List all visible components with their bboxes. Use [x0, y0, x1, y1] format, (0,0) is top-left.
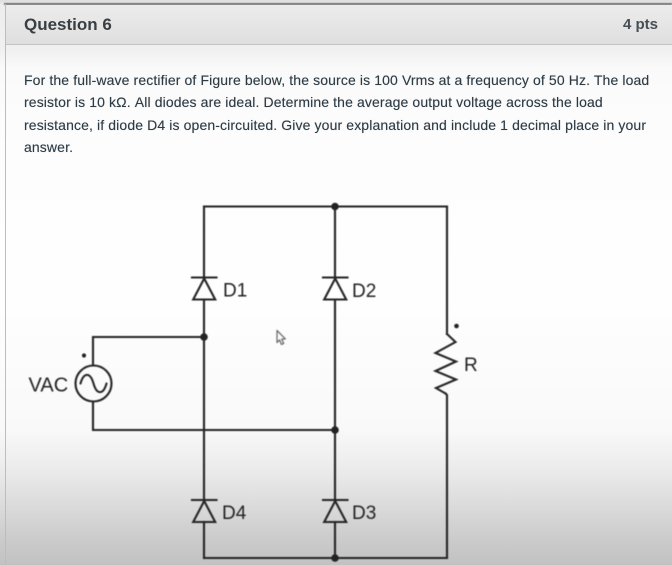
AC source VAC circle	[76, 366, 112, 402]
resistor R	[436, 334, 457, 394]
node B (VAC- to middle branch)	[331, 426, 339, 434]
wire middle branch upper (top rail to D2)	[334, 207, 336, 278]
left border	[5, 4, 6, 565]
node bottom middle junction	[331, 554, 339, 562]
svg-text:VAC: VAC	[29, 375, 69, 397]
wire right branch lower (R to bottom rail)	[446, 394, 448, 559]
diode D2	[323, 278, 348, 300]
wire right branch upper (top rail to R)	[446, 207, 448, 335]
svg-text:R: R	[464, 355, 478, 376]
diode D1	[192, 278, 217, 300]
polarity dot near R	[454, 324, 459, 329]
wire bottom rail	[204, 557, 447, 559]
node top middle junction	[331, 203, 339, 211]
svg-text:D3: D3	[352, 503, 376, 524]
question text	[24, 69, 669, 159]
svg-text:D1: D1	[223, 281, 247, 302]
top dark line	[4, 3, 672, 5]
header bar	[6, 5, 672, 45]
polarity dot near VAC	[82, 353, 86, 357]
mouse cursor	[277, 331, 285, 345]
wire VAC bottom lead	[93, 402, 335, 431]
diode D3	[323, 500, 348, 522]
wire middle branch middle (D2 to D3)	[334, 300, 336, 501]
AC source sine wave	[81, 375, 107, 392]
svg-text:D4: D4	[222, 503, 247, 524]
wire middle branch lower (D3 to bottom rail)	[334, 522, 336, 558]
wire left branch upper (top rail to D1)	[203, 207, 205, 278]
wire top rail	[204, 205, 447, 207]
diode D4	[192, 500, 217, 522]
wire left branch middle (D1 to D4)	[203, 300, 205, 501]
node A (VAC+ to left branch)	[200, 333, 208, 341]
svg-text:D2: D2	[352, 281, 376, 302]
wire VAC top lead	[93, 337, 204, 366]
wire left branch lower (D4 to bottom rail)	[203, 522, 205, 558]
